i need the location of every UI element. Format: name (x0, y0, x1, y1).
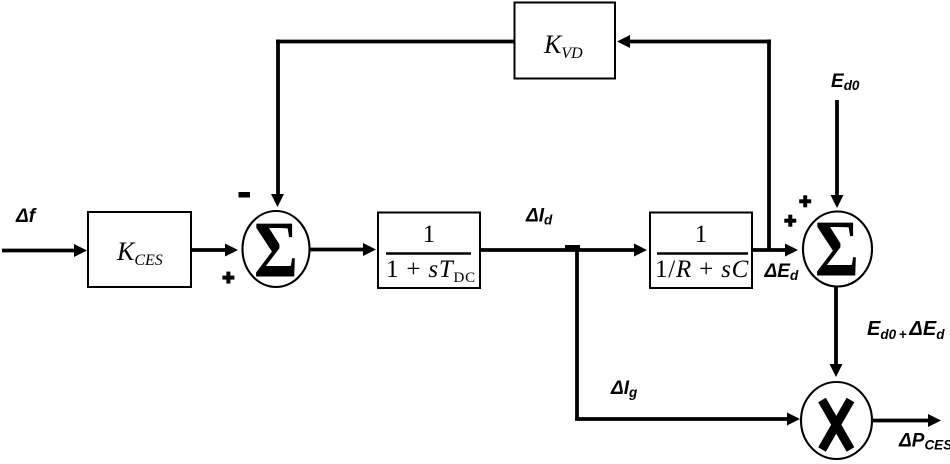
svg-text:Δf: Δf (15, 206, 37, 227)
wire: K_CES to summer 1 (191, 244, 238, 257)
plus sign lower at summer 2 (784, 215, 796, 227)
wire: bottom horizontal into multiplier (575, 413, 800, 426)
plus sign at summer 1 (222, 272, 234, 284)
svg-text:1/R + sC: 1/R + sC (655, 256, 749, 283)
wire: TF2 to summer 2 (752, 244, 798, 257)
block 1/(1/R+sC) (650, 213, 752, 289)
wire: input Δf into K_CES (2, 244, 87, 257)
multiplier X (801, 382, 872, 459)
plus sign upper at summer 2 (799, 195, 811, 207)
summing junction 2 (803, 205, 872, 294)
wire: summer 1 to block TF1 (309, 243, 376, 256)
wire: branch down from junction (575, 248, 579, 419)
wire: feedback top horizontal into K_VD (617, 35, 771, 48)
svg-text:Σ: Σ (815, 205, 859, 294)
svg-text:Σ: Σ (254, 206, 298, 295)
block K_CES (88, 212, 191, 287)
wire: feedback left vertical down into summer 1 (271, 40, 284, 208)
wire: K_VD left to corner (276, 40, 514, 44)
wire: feedback vertical up from output node (767, 40, 771, 251)
wire: multiplier output (872, 414, 941, 427)
svg-text:1: 1 (423, 221, 436, 248)
block K_VD (515, 3, 616, 79)
block 1/(1+sTdc) (378, 213, 480, 289)
svg-text:1: 1 (695, 221, 708, 248)
wire: summer 2 down to multiplier (830, 287, 843, 377)
minus sign at summer 1 (239, 192, 251, 198)
wire: E_d0 down into summer 2 (831, 100, 844, 208)
wire: TF1 to TF2 with branch junction (480, 244, 647, 257)
summing junction 1 (243, 206, 310, 295)
